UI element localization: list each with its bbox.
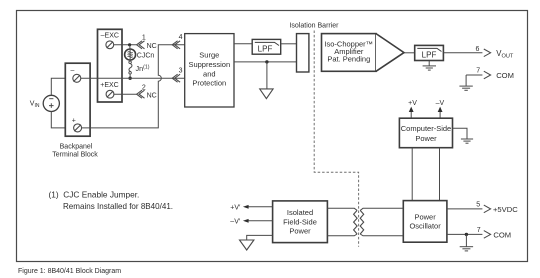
wire -V' output with arrow (248, 220, 273, 222)
wire +EXC screw to pin 2 (114, 93, 137, 95)
svg-text:Backpanel: Backpanel (60, 144, 93, 151)
svg-text:Pat. Pending: Pat. Pending (327, 55, 370, 64)
wire node A to CJC sensor (129, 45, 131, 49)
svg-text:Isolation Barrier: Isolation Barrier (289, 23, 339, 30)
wire surge top output to LPF1 (234, 43, 252, 45)
svg-text:+V: +V (408, 100, 417, 107)
svg-text:Suppression: Suppression (188, 60, 230, 69)
svg-text:NC: NC (147, 92, 157, 99)
wire COM upper (466, 74, 482, 76)
svg-text:Protection: Protection (192, 79, 226, 88)
transformer secondary winding (360, 210, 364, 234)
wire +V supply rail to oscillator (411, 148, 413, 201)
svg-text:+5VDC: +5VDC (493, 205, 518, 214)
svg-text:–: – (71, 67, 75, 74)
ground computer-side (461, 139, 473, 143)
svg-text:–V′: –V′ (230, 218, 241, 225)
screw terminal +EXC (106, 90, 114, 98)
wire VIN- to backpanel plus terminal (51, 112, 73, 128)
wire minus line: backpanel minus screw through node B to pin 3 of surge block (81, 77, 185, 79)
block U3 Computer-Side Power (399, 118, 452, 148)
svg-text:1: 1 (142, 35, 146, 42)
isolation barrier block (297, 34, 309, 72)
svg-text:6: 6 (476, 46, 480, 53)
supply stub -V with up arrow (439, 110, 441, 118)
jumper Jn (129, 60, 132, 78)
svg-text:Figure 1: 8B40/41 Block Diagra: Figure 1: 8B40/41 Block Diagram (18, 268, 121, 275)
wire field-side power to primary top (327, 208, 357, 210)
connector chevron pin 4 (172, 41, 180, 49)
svg-text:Field-Side: Field-Side (283, 217, 317, 226)
svg-text:COM: COM (493, 230, 511, 239)
junction COM lower (465, 233, 468, 236)
filter LPF1 (252, 39, 281, 54)
wire LPF1 to isolation barrier (281, 43, 297, 45)
svg-text:and: and (203, 69, 216, 78)
svg-text:Isolated: Isolated (287, 208, 313, 217)
wire computer-side power to ground (453, 128, 468, 139)
svg-text:(1) CJC Enable Jumper.: (1) CJC Enable Jumper. (49, 190, 140, 200)
wire secondary bottom to oscillator (360, 234, 403, 236)
filter LPF2 (415, 45, 444, 60)
svg-text:+: + (72, 118, 76, 125)
connector chevron pin 1 (137, 41, 145, 49)
wire field-side power to ground triangle (247, 235, 273, 239)
supply stub +V with up arrow (410, 110, 412, 118)
svg-text:Power: Power (289, 227, 311, 236)
svg-text:LPF: LPF (422, 50, 437, 59)
arrow +5VDC (484, 205, 491, 213)
arrow COM upper (484, 71, 491, 79)
screw terminal -EXC (106, 41, 114, 49)
block U5 Isolated Field-Side Power (273, 201, 328, 243)
svg-text:–V: –V (436, 100, 445, 107)
wire amplifier to LPF2 (404, 52, 415, 54)
wire oscillator to COM lower (447, 233, 483, 235)
screw terminal minus (73, 74, 81, 82)
svg-text:CJCn: CJCn (137, 52, 155, 59)
svg-text:+V′: +V′ (230, 204, 241, 211)
backpanel terminal block (65, 63, 90, 136)
arrow VOUT (484, 49, 491, 57)
junction field ground node (265, 60, 268, 63)
wire surge bottom output to isolation barrier (234, 61, 296, 63)
block U4 Power Oscillator (403, 201, 447, 243)
svg-text:7: 7 (477, 227, 481, 234)
svg-text:Computer-Side: Computer-Side (401, 124, 451, 133)
ground LPF2 (423, 61, 436, 71)
wire oscillator to +5VDC (447, 208, 483, 210)
wire down to field ground (266, 62, 268, 89)
wire +V' output with arrow (248, 206, 273, 208)
svg-text:+EXC: +EXC (100, 82, 118, 89)
wire secondary top to oscillator (360, 208, 403, 210)
node B junction (128, 77, 131, 80)
sensor CJCn (125, 49, 136, 60)
svg-text:Oscillator: Oscillator (409, 222, 441, 231)
transformer primary winding (354, 210, 358, 234)
svg-text:Power: Power (415, 134, 437, 143)
svg-text:5: 5 (476, 202, 480, 209)
ground field (triangle) (260, 89, 273, 99)
screw terminal plus (74, 124, 82, 132)
isolation barrier dashed line (314, 31, 358, 247)
ground COM lower (460, 234, 473, 251)
svg-text:COM: COM (496, 71, 514, 80)
svg-text:NC: NC (147, 43, 157, 50)
node A junction (128, 43, 131, 46)
connector chevron pin 2 (137, 90, 145, 98)
svg-text:Surge: Surge (199, 50, 219, 59)
ground field-side (triangle) (240, 240, 254, 250)
source VIN (43, 95, 59, 111)
wire LPF2 to VOUT (443, 52, 482, 54)
EXC terminal block (98, 29, 123, 102)
wire plus line: backpanel plus screw riser to pin 4 with crossover hop (82, 45, 185, 128)
wire field-side power to primary bottom (327, 234, 357, 236)
op-amp U2 Iso-Chopper Amplifier (322, 34, 377, 72)
svg-text:7: 7 (476, 68, 480, 75)
svg-text:3: 3 (179, 68, 183, 75)
wire -V supply rail to oscillator (439, 148, 441, 201)
svg-text:4: 4 (179, 34, 183, 41)
ground COM upper (459, 75, 472, 90)
block U1 Surge Suppression and Protection (185, 34, 234, 107)
svg-text:Remains Installed for 8B40/41.: Remains Installed for 8B40/41. (63, 202, 173, 211)
connector chevron pin 3 (172, 74, 180, 82)
svg-text:Terminal Block: Terminal Block (52, 152, 98, 159)
wire VIN+ to backpanel minus terminal (51, 78, 73, 95)
svg-text:–EXC: –EXC (101, 33, 119, 40)
arrow COM lower (484, 231, 491, 239)
svg-text:Power: Power (414, 213, 436, 222)
svg-text:LPF: LPF (258, 44, 273, 53)
wire -EXC screw to node A and pin1 (113, 44, 136, 46)
